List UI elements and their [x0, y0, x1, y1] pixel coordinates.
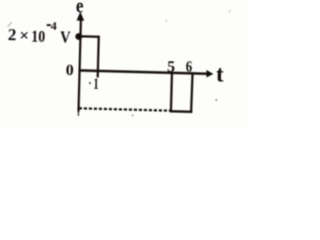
svg-text:t: t — [216, 62, 225, 87]
svg-text:10: 10 — [31, 26, 45, 45]
svg-text:1: 1 — [93, 76, 99, 93]
svg-text:4: 4 — [51, 19, 57, 33]
svg-text:2: 2 — [8, 25, 17, 44]
svg-text:V: V — [60, 27, 72, 46]
svg-text:5: 5 — [167, 59, 175, 76]
svg-text:6: 6 — [186, 59, 193, 76]
svg-text:0: 0 — [65, 62, 73, 79]
svg-text:e: e — [76, 0, 84, 17]
svg-text:×: × — [19, 26, 29, 45]
